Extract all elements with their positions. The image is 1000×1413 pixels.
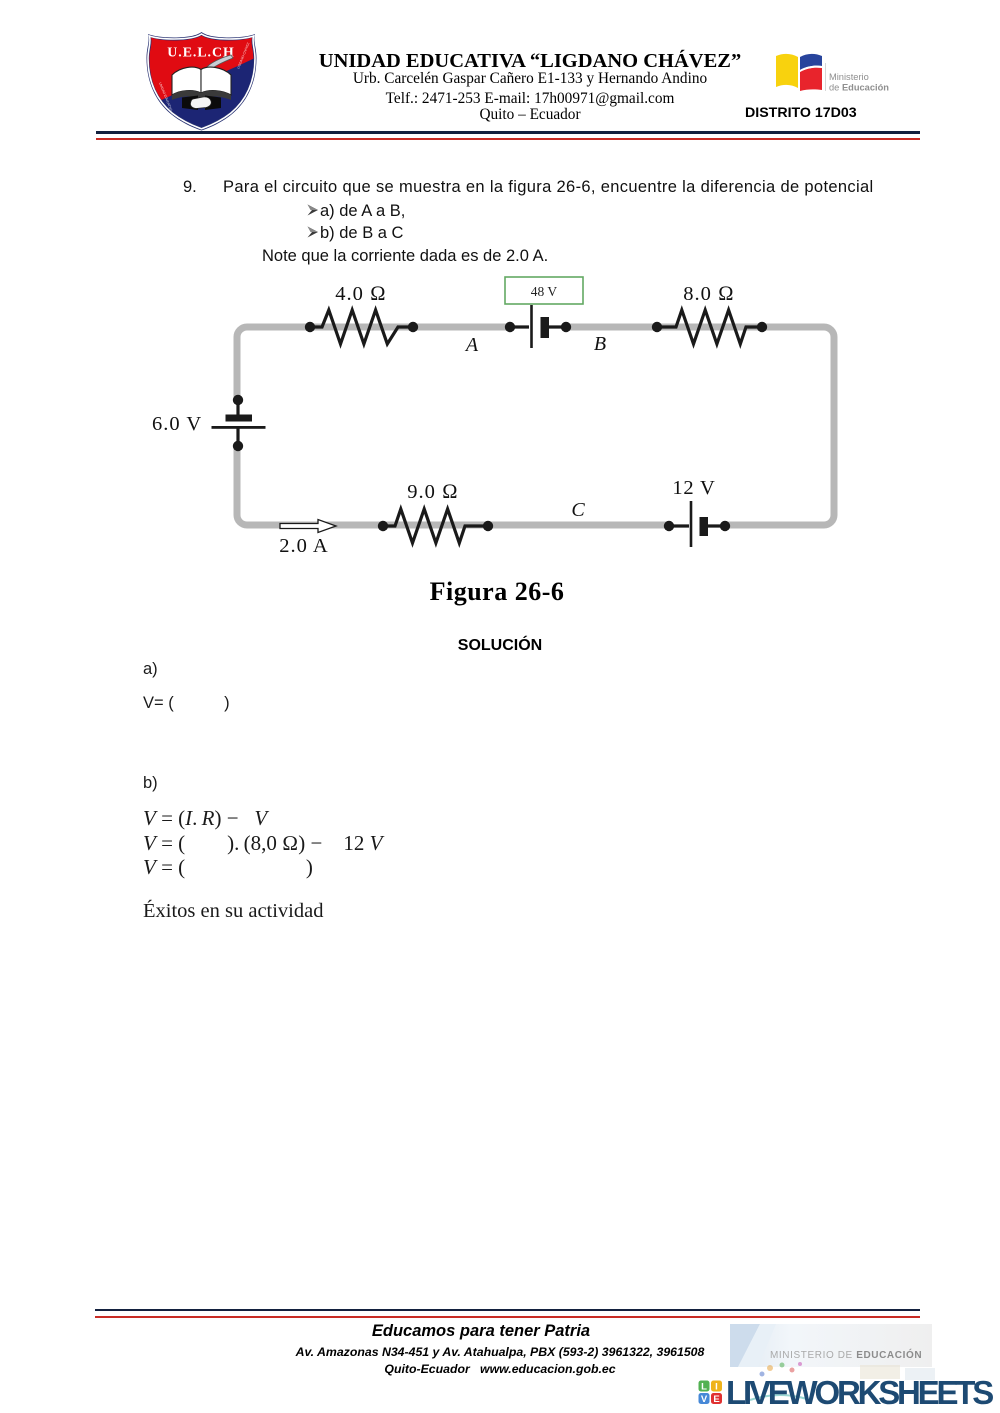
junction: R2 right terminal (757, 322, 767, 332)
svg-text:4.0 Ω: 4.0 Ω (335, 283, 387, 305)
junction: B3 right terminal (720, 521, 730, 531)
quill feather (206, 55, 233, 71)
wire gap at battery B2 (48 V, top side) (512, 322, 564, 332)
school shield logo U.E.L.CH (146, 31, 257, 131)
header rule navy (96, 131, 920, 134)
svg-text:L: L (701, 1382, 707, 1393)
svg-text:A: A (464, 334, 479, 356)
ministry of education logo (top right) (773, 50, 903, 92)
resistor R3 9.0 ohm (bottom) (383, 509, 488, 543)
open book (172, 67, 201, 95)
faint confetti behind liveworksheets (740, 1360, 980, 1410)
faint curved side text (158, 42, 250, 113)
svg-text:I: I (715, 1382, 718, 1393)
junction: R1 right terminal (408, 322, 418, 332)
svg-text:6.0 V: 6.0 V (152, 413, 202, 435)
bullet arrow a (307, 204, 319, 216)
junction: B1 bottom terminal (233, 441, 243, 451)
junction: R3 left terminal (378, 521, 388, 531)
handshake on black band (182, 96, 198, 111)
junction: B2 right terminal (561, 322, 571, 332)
junction: R1 left terminal (305, 322, 315, 332)
junction: B1 top terminal (233, 395, 243, 405)
svg-text:9.0 Ω: 9.0 Ω (407, 481, 459, 503)
current arrow I = 2.0 A (bottom left) (280, 520, 336, 533)
svg-text:12 V: 12 V (672, 477, 715, 499)
resistor R1 4.0 ohm (top left) (310, 310, 413, 344)
svg-text:V: V (701, 1394, 708, 1405)
battery B2 48 V (top middle) (510, 305, 566, 348)
battery B3 12 V (bottom right) (669, 501, 725, 547)
wire gap at battery B3 (12 V, bottom side) (671, 521, 723, 531)
bullet arrow b (307, 226, 319, 238)
battery B1 6.0 V (left side) (212, 400, 266, 446)
liveworksheets logo squares (698, 1380, 723, 1405)
svg-text:48 V: 48 V (531, 284, 558, 299)
svg-text:E: E (713, 1394, 719, 1405)
junction: B3 left terminal (664, 521, 674, 531)
resistor R2 8.0 ohm (top right) (657, 310, 762, 344)
header rule red (96, 138, 920, 140)
svg-text:B: B (594, 333, 606, 355)
junction: R2 left terminal (652, 322, 662, 332)
svg-text:2.0 A: 2.0 A (279, 535, 328, 557)
wire: main rectangular loop (237, 327, 834, 525)
svg-text:8.0 Ω: 8.0 Ω (683, 283, 735, 305)
ministry banner footer right (730, 1324, 932, 1367)
junction: R3 right terminal (483, 521, 493, 531)
svg-text:C: C (571, 499, 585, 521)
value label: 48 V (green box) (505, 277, 583, 304)
header text block (280, 50, 780, 73)
wire gap at battery B1 (6.0 V, left side) (230, 402, 245, 444)
figure caption (297, 577, 697, 607)
junction: B2 left terminal (505, 322, 515, 332)
